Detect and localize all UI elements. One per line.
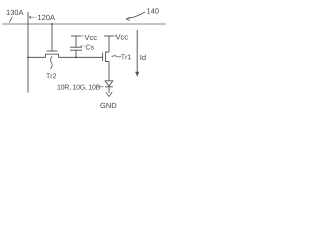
capacitor Cs (storage capacitor plates) bbox=[70, 47, 82, 57]
label 120A with dashed leader arrow bbox=[29, 15, 55, 20]
wire: Tr1 source to OLED anode bbox=[108, 62, 110, 81]
wire: Tr2 gate lead bbox=[51, 24, 53, 51]
transistor Tr1 (drive TFT: left gate bar + channel staple) bbox=[103, 52, 109, 62]
wire: scanning line 130A (horizontal bus) bbox=[2, 23, 166, 25]
wire: Tr2 drain to Tr1 gate bbox=[59, 56, 103, 58]
label Vcc (right) with leader tick bbox=[115, 34, 128, 39]
power Vcc supply bar (above Tr1) bbox=[104, 35, 114, 37]
label 140 (pixel circuit) with curved leader arrow bbox=[126, 8, 159, 20]
power Vcc supply bar (above Cs) bbox=[71, 36, 81, 47]
label Cs with dashed leader bbox=[81, 45, 94, 50]
ground GND bbox=[100, 103, 116, 108]
junction: data line joins Tr2 source wire bbox=[27, 56, 29, 58]
wire: OLED cathode to ground with open arrowhead bbox=[106, 87, 112, 97]
label Tr2 with squiggle leader bbox=[46, 56, 56, 78]
label 130A with leader tick bbox=[7, 10, 24, 23]
junction: Cs bottom plate on gate wire bbox=[75, 56, 77, 58]
transistor Tr2 (switching TFT: gate bar + raised channel) bbox=[46, 51, 59, 57]
label Id bbox=[140, 55, 145, 61]
current arrow Id (drain current, downward) bbox=[135, 30, 139, 77]
OLED diode (organic EL element) bbox=[105, 81, 113, 87]
wire: data line to Tr2 source bbox=[28, 56, 46, 58]
wire: signal line 120A (vertical data line) bbox=[27, 12, 29, 93]
label 10R, 10G, 10B with leader tick bbox=[58, 85, 104, 91]
junction: Tr2 gate lead on scan line bbox=[51, 23, 53, 25]
wire: Vcc to Tr1 drain bbox=[108, 36, 110, 52]
label Vcc (left) with leader tick bbox=[82, 35, 97, 40]
label Tr1 with squiggle leader bbox=[112, 54, 131, 59]
